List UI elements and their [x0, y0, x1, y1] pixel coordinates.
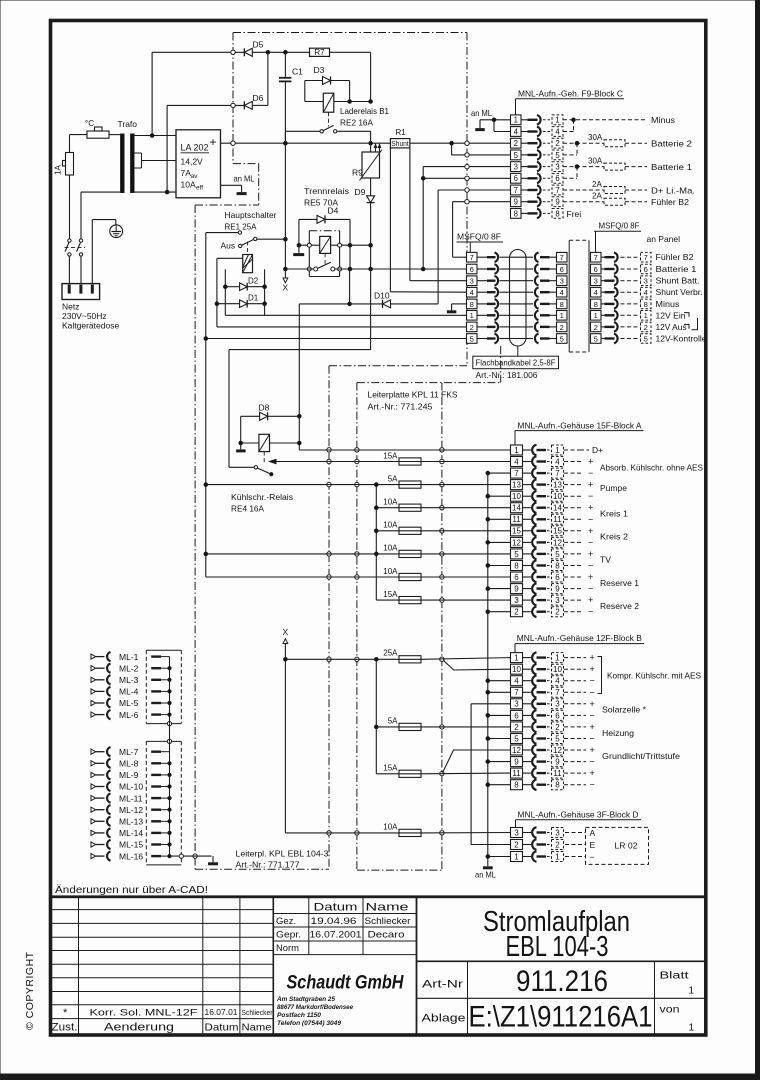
node C1 bottom to bus [284, 81, 286, 143]
shunt resistor R1 [390, 139, 410, 148]
ground MSFQ pin8 [452, 303, 467, 305]
svg-text:E: E [590, 840, 596, 850]
svg-text:3: 3 [555, 163, 559, 172]
wire LA202 to an-ML ground [221, 184, 242, 186]
svg-text:Korr. Sol. MNL-12F: Korr. Sol. MNL-12F [90, 1008, 198, 1019]
svg-text:5A: 5A [388, 717, 398, 726]
svg-text:RE1 25A: RE1 25A [225, 222, 257, 232]
svg-text:7: 7 [514, 688, 519, 697]
ribbon region boundary dash-dot [500, 346, 502, 383]
connector ML-1 [91, 654, 96, 659]
svg-text:+: + [590, 768, 595, 778]
relay coil RE4 [241, 442, 259, 444]
wire 12V-Kontrolle row (pin5) [206, 338, 467, 340]
svg-text:15: 15 [553, 527, 562, 536]
connector ML-2 [91, 666, 96, 671]
Block B contacts [523, 657, 532, 659]
svg-text:Datum: Datum [314, 902, 358, 914]
svg-text:1: 1 [555, 654, 560, 663]
svg-text:2: 2 [555, 723, 560, 732]
wire D3 right leg [349, 81, 351, 102]
svg-text:ML-3: ML-3 [119, 675, 139, 685]
svg-text:Art.-Nr.: 771.245: Art.-Nr.: 771.245 [368, 402, 433, 412]
minus bus column [487, 473, 489, 866]
connector ML-7 [91, 749, 96, 754]
svg-text:1: 1 [560, 311, 564, 320]
crossings on x=329 [327, 448, 331, 452]
svg-text:4: 4 [644, 288, 648, 297]
svg-text:Minus: Minus [656, 299, 680, 309]
svg-text:X: X [283, 627, 289, 637]
feeder column x=376 lower [375, 659, 377, 774]
svg-text:2: 2 [555, 139, 559, 148]
svg-text:ML-12: ML-12 [119, 805, 143, 815]
fuse 25A row pin1 [285, 658, 399, 660]
ground RE4 coil [236, 449, 246, 452]
Block C Batterie 1 fuse 30A [563, 166, 604, 168]
svg-text:1: 1 [514, 852, 519, 861]
wire RE1 box left [217, 257, 243, 259]
earth wire [91, 220, 93, 284]
svg-text:5: 5 [470, 334, 474, 343]
ground RE5 coil [298, 245, 300, 253]
wire secondary bottom to D6 [166, 105, 168, 192]
diode D8 [241, 415, 260, 417]
svg-text:−: − [588, 537, 593, 547]
fuse 5A row pin13 [206, 484, 399, 486]
svg-text:14,2V: 14,2V [181, 157, 204, 167]
crossings on x=356.9 [355, 448, 359, 452]
scan edge right strip [756, 0, 760, 1080]
feeder column x=376 upper [375, 485, 377, 600]
diode D10 [383, 300, 391, 308]
svg-text:ML-5: ML-5 [119, 698, 139, 708]
wire centre tap to LA202 [142, 160, 177, 162]
svg-text:6: 6 [644, 265, 648, 274]
svg-text:Schliecker: Schliecker [365, 916, 411, 926]
connector ML-14 [91, 830, 96, 835]
svg-text:6: 6 [594, 265, 598, 274]
svg-text:Shunt: Shunt [391, 141, 409, 148]
svg-text:D3: D3 [314, 65, 325, 75]
svg-text:+: + [588, 503, 593, 513]
svg-text:an Panel: an Panel [647, 234, 681, 244]
svg-text:Am Stadtgraben 25: Am Stadtgraben 25 [276, 996, 335, 1003]
wire contact left to C1 node [285, 130, 320, 132]
connector MSFQ left column [467, 252, 478, 262]
Block B external labels [564, 657, 586, 659]
svg-text:Fühler B2: Fühler B2 [651, 197, 689, 207]
svg-text:LA 202: LA 202 [181, 143, 209, 153]
svg-text:15: 15 [512, 527, 521, 536]
svg-text:eff: eff [196, 185, 203, 192]
relay coil RE2 Laderelais B1 [323, 93, 334, 112]
svg-text:1A: 1A [54, 165, 63, 175]
svg-text:1: 1 [644, 311, 648, 320]
svg-text:°C: °C [85, 119, 94, 128]
svg-text:8: 8 [560, 300, 564, 309]
svg-text:3: 3 [594, 277, 598, 286]
wire Aus right to X node column [257, 238, 286, 240]
wire minus to D pin1 [488, 856, 511, 858]
svg-text:Telefon (07544) 3049: Telefon (07544) 3049 [277, 1020, 341, 1027]
MSFQ middle-left contacts [526, 256, 533, 258]
svg-text:4: 4 [560, 288, 564, 297]
svg-text:5: 5 [514, 151, 519, 160]
svg-text:4: 4 [514, 677, 519, 686]
Block A contacts [523, 449, 532, 451]
wire X column [284, 143, 286, 278]
svg-text:Pumpe: Pumpe [600, 483, 627, 493]
svg-text:D+: D+ [592, 445, 603, 455]
ML pins bold [151, 655, 161, 657]
svg-text:5: 5 [555, 734, 560, 743]
svg-text:ML-8: ML-8 [119, 759, 139, 769]
svg-text:−: − [588, 584, 593, 594]
svg-text:−: − [590, 710, 595, 720]
svg-text:2: 2 [514, 723, 519, 732]
svg-text:Minus: Minus [651, 115, 675, 125]
relay RE2 actuator dashed [328, 112, 330, 126]
Block D to LR02 dashed wires [565, 832, 586, 834]
svg-text:2: 2 [470, 323, 474, 332]
svg-text:3: 3 [514, 163, 518, 172]
connector Block A mating dashed [552, 445, 564, 455]
svg-text:12: 12 [512, 538, 521, 547]
fuse 1A [66, 153, 74, 176]
wire + bus from LA202 [221, 142, 391, 144]
connector Block B mating dashed [552, 653, 564, 663]
svg-text:6: 6 [514, 573, 519, 582]
svg-text:5: 5 [594, 334, 598, 343]
svg-text:9: 9 [555, 198, 559, 207]
svg-text:Laderelais B1: Laderelais B1 [340, 106, 389, 116]
svg-text:13: 13 [553, 481, 562, 490]
svg-text:7: 7 [555, 186, 559, 195]
svg-text:D5: D5 [253, 40, 264, 50]
svg-text:Batterie 1: Batterie 1 [651, 162, 692, 172]
svg-text:11: 11 [553, 769, 562, 778]
MSFQ inter-connector box [569, 239, 589, 241]
connector Block D mating dashed [552, 828, 564, 838]
svg-text:1: 1 [470, 311, 474, 320]
charger module LA 202 box [176, 130, 221, 198]
wire D+ row to Block A pin1 [299, 449, 510, 451]
svg-text:3: 3 [555, 596, 560, 605]
Block C contacts [521, 119, 528, 121]
ribbon wires [510, 256, 527, 258]
svg-text:−: − [588, 491, 593, 501]
svg-text:8: 8 [514, 209, 518, 218]
connector MSFQ panel column dashed [641, 252, 652, 262]
svg-text:10: 10 [553, 665, 562, 674]
connector Block C pin column [511, 115, 522, 125]
connector Block D pin column [511, 828, 523, 838]
svg-text:MSFQ/0 8F: MSFQ/0 8F [599, 221, 640, 231]
wire D8 left leg [240, 416, 242, 449]
svg-text:12: 12 [553, 538, 562, 547]
PCB boundary Leiterplatte KPL 11 FKS dash-dot [233, 32, 467, 34]
svg-text:Batterie 2: Batterie 2 [651, 139, 692, 149]
svg-text:13: 13 [512, 481, 521, 490]
diode D6 [244, 101, 252, 109]
svg-text:14: 14 [553, 504, 562, 513]
svg-text:ML-16: ML-16 [119, 851, 143, 861]
svg-text:MNL-Aufn.-Gehäuse 3F-Block D: MNL-Aufn.-Gehäuse 3F-Block D [518, 809, 639, 819]
wire Solarzelle + from LR02 E [471, 703, 510, 705]
svg-text:Reserve 2: Reserve 2 [600, 601, 639, 611]
svg-text:TV: TV [600, 555, 611, 565]
svg-text:3: 3 [560, 277, 564, 286]
svg-text:MNL-Aufn.-Gehäuse 15F-Block A: MNL-Aufn.-Gehäuse 15F-Block A [518, 420, 642, 430]
wire secondary top to LA202 [134, 135, 176, 137]
svg-text:16.07.01: 16.07.01 [205, 1008, 239, 1017]
Block C external wiring Minus [563, 119, 647, 121]
relay coil RE1 [243, 255, 253, 273]
svg-text:12V Aus: 12V Aus [656, 322, 687, 332]
switch S1 mains pole 1 [68, 239, 71, 242]
connector ML-9 [91, 772, 96, 777]
svg-text:+: + [588, 480, 593, 490]
connector ML-16 [91, 854, 96, 859]
svg-text:−: − [590, 852, 595, 862]
svg-text:2: 2 [555, 608, 560, 617]
wire Fuehler B2 link [453, 201, 511, 203]
svg-text:−: − [590, 687, 595, 697]
Block C D+ fuse 2A [563, 189, 604, 191]
Block D contacts [523, 832, 532, 834]
svg-text:7: 7 [514, 469, 519, 478]
connector MSFQ middle-left column [557, 252, 568, 262]
svg-text:Gez.: Gez. [276, 916, 296, 927]
svg-text:19.04.96: 19.04.96 [311, 916, 357, 927]
ML bus column [169, 657, 171, 724]
svg-text:Fühler B2: Fühler B2 [656, 252, 694, 262]
svg-text:Trennrelais: Trennrelais [304, 186, 349, 196]
svg-text:X: X [283, 283, 289, 293]
svg-text:+: + [588, 457, 593, 467]
title block frame [51, 897, 706, 1035]
svg-text:9: 9 [555, 758, 560, 767]
svg-text:−: − [590, 676, 595, 686]
svg-text:−: − [588, 468, 593, 478]
diode D4 [299, 218, 317, 220]
svg-text:4: 4 [594, 288, 598, 297]
wire secondary top to D5 [151, 52, 153, 135]
arrow 15A feed [270, 459, 277, 463]
Block C Batterie 2 fuse 30A [563, 142, 604, 144]
wire secondary bottom to LA202 [134, 191, 176, 193]
ribbon cable Flachbandkabel loop [510, 250, 527, 347]
transformer centre tap stub [134, 152, 142, 154]
connector ML-10 [91, 784, 96, 789]
svg-text:D4: D4 [328, 206, 339, 216]
fuse 15A row pin11 [376, 773, 399, 775]
svg-text:10A: 10A [383, 567, 398, 576]
svg-text:Batterie 1: Batterie 1 [656, 264, 697, 274]
svg-text:Reserve 1: Reserve 1 [600, 578, 639, 588]
svg-text:3: 3 [514, 828, 519, 837]
relay RE1 actuator dashed [247, 242, 249, 255]
wire main switched line y=269 [285, 268, 313, 270]
svg-text:2: 2 [514, 608, 519, 617]
svg-text:10A: 10A [383, 521, 398, 530]
svg-text:Schaudt GmbH: Schaudt GmbH [287, 973, 405, 994]
fuse 10A row pin6 [206, 576, 399, 578]
Block A minus bus stubs [488, 472, 511, 474]
svg-text:9: 9 [514, 585, 519, 594]
connector MSFQ middle-right column [591, 252, 602, 262]
svg-text:ML-2: ML-2 [119, 663, 139, 673]
svg-text:Grundlicht/Trittstufe: Grundlicht/Trittstufe [602, 751, 680, 761]
label Flachbandkabel [517, 346, 519, 356]
svg-text:A: A [590, 828, 596, 838]
12V Aus switch symbol [684, 324, 689, 328]
svg-text:2: 2 [560, 323, 564, 332]
svg-text:−: − [590, 734, 595, 744]
svg-text:RE4 16A: RE4 16A [231, 504, 264, 514]
svg-text:8: 8 [555, 781, 560, 790]
svg-text:+: + [590, 699, 595, 709]
title block right section lines [417, 960, 706, 962]
svg-text:Solarzelle *: Solarzelle * [602, 705, 647, 715]
wire R9 to D9 [370, 178, 372, 196]
svg-text:C1: C1 [292, 67, 303, 77]
diode D1 row [217, 303, 240, 305]
svg-text:+: + [588, 595, 593, 605]
svg-text:an ML: an ML [471, 108, 492, 118]
svg-text:15A: 15A [383, 764, 398, 773]
svg-text:R1: R1 [396, 128, 407, 137]
svg-text:1: 1 [514, 446, 519, 455]
fuse F-thermal °C [70, 134, 88, 136]
svg-text:12: 12 [553, 746, 562, 755]
svg-text:10: 10 [553, 492, 562, 501]
diode D9 [367, 196, 375, 203]
connector ML-15 [91, 842, 96, 847]
svg-text:6: 6 [555, 711, 560, 720]
svg-text:2: 2 [594, 323, 598, 332]
svg-text:Heizung: Heizung [602, 728, 634, 738]
svg-text:an ML: an ML [475, 870, 496, 880]
svg-text:1: 1 [555, 446, 560, 455]
svg-text:5: 5 [560, 334, 564, 343]
svg-text:−: − [588, 561, 593, 571]
svg-text:+: + [590, 722, 595, 732]
svg-text:+: + [588, 572, 593, 582]
svg-text:12V-Kontrolle: 12V-Kontrolle [656, 334, 707, 344]
svg-text:1: 1 [514, 654, 519, 663]
connector Block B pin column [511, 653, 523, 663]
svg-text:30A: 30A [588, 133, 603, 142]
wire mains left [69, 135, 71, 153]
svg-text:ML-10: ML-10 [119, 782, 143, 792]
svg-text:7: 7 [644, 253, 648, 262]
wire LR02 E to pin2 [471, 844, 510, 846]
switch coupler dashed [65, 247, 86, 249]
fuse 10A row pin14 [376, 507, 399, 509]
svg-text:7: 7 [560, 253, 564, 262]
wire trafo primary top [109, 134, 121, 136]
fuse 15A row pin3 [376, 599, 399, 601]
svg-text:1: 1 [689, 1023, 695, 1034]
ground ML bus [212, 856, 214, 862]
connector ML-8 [91, 761, 96, 766]
svg-text:von: von [660, 1005, 680, 1016]
PCB boundary crossings (diamonds) [231, 50, 235, 54]
wire Aus upper [206, 232, 238, 234]
fuse 10A row Block D [285, 832, 399, 834]
svg-text:8: 8 [555, 209, 559, 218]
svg-text:15A: 15A [383, 590, 398, 599]
svg-text:LR 02: LR 02 [615, 840, 638, 850]
svg-text:Trafo: Trafo [118, 119, 138, 129]
svg-text:4: 4 [514, 457, 519, 466]
svg-text:7: 7 [555, 688, 560, 697]
svg-text:Kreis 1: Kreis 1 [600, 509, 628, 519]
resistor R7 [310, 48, 330, 56]
svg-text:R9: R9 [352, 168, 363, 178]
svg-text:ML-4: ML-4 [119, 687, 139, 697]
svg-text:911.216: 911.216 [516, 965, 608, 998]
crossing on x=195.1 [193, 854, 197, 858]
svg-text:Datum: Datum [205, 1022, 239, 1034]
relay RE5 actuator dashed [324, 253, 326, 264]
transformer TR1 secondary bar [131, 134, 134, 193]
wire D10 row [299, 303, 382, 305]
ground an ML (minus bus) [483, 866, 493, 869]
svg-text:6: 6 [555, 174, 559, 183]
svg-text:5: 5 [514, 550, 519, 559]
connector ML-3 [91, 677, 96, 682]
wire 12V Ein row (pin1) [225, 314, 467, 316]
svg-text:10A: 10A [383, 498, 398, 507]
svg-text:14: 14 [512, 504, 521, 513]
svg-text:Blatt: Blatt [660, 971, 689, 982]
wire contact right to bus [337, 130, 371, 132]
svg-text:an ML: an ML [234, 174, 255, 184]
resistor R9 [370, 143, 372, 152]
solar regulator LR 02 dashed box [586, 827, 649, 864]
MSFQ right contacts [601, 256, 605, 258]
title block middle section lines [273, 913, 416, 915]
svg-text:Name: Name [242, 1022, 272, 1034]
svg-text:*: * [63, 1007, 68, 1019]
Block B minus bus stubs [488, 680, 511, 682]
svg-text:D1: D1 [248, 294, 259, 303]
svg-text:6: 6 [470, 265, 474, 274]
svg-text:Schliecker: Schliecker [242, 1008, 273, 1017]
capacitor C1 [284, 52, 286, 77]
svg-text:8: 8 [555, 561, 560, 570]
relay RE5 contact [314, 267, 318, 271]
svg-text:R7: R7 [314, 48, 325, 57]
svg-text:3: 3 [514, 596, 519, 605]
svg-text:Hauptschalter: Hauptschalter [225, 210, 277, 220]
ML group 1 dashed box [146, 649, 181, 651]
svg-text:4: 4 [555, 457, 560, 466]
wire D6 up to D5 node [267, 52, 269, 105]
svg-text:88677 Markdorf/Bodensee: 88677 Markdorf/Bodensee [277, 1004, 353, 1011]
svg-text:Norm: Norm [276, 943, 299, 954]
svg-text:Aus: Aus [221, 241, 236, 251]
svg-text:1: 1 [555, 852, 560, 861]
connector Netz Kaltgeraetedose [62, 284, 100, 300]
svg-text:Änderungen nur über A-CAD!: Änderungen nur über A-CAD! [55, 884, 208, 896]
diode D5 [244, 48, 252, 56]
svg-text:12: 12 [512, 746, 521, 755]
crossings on x=441.9 [440, 448, 444, 452]
